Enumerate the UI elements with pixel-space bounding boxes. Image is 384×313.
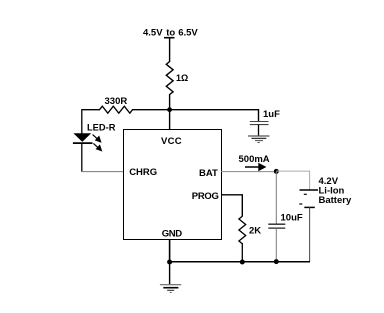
svg-text:Battery: Battery [319,195,352,206]
svg-text:PROG: PROG [192,191,219,202]
wire battery to rail [309,207,311,262]
wire GND pin down [169,239,171,262]
wire BAT to battery [276,171,309,190]
resistor R3 2K [239,216,246,244]
svg-text:4.5Vto6.5V: 4.5Vto6.5V [143,28,198,39]
svg-text:GND: GND [162,229,182,240]
capacitor C2 10uF top plate [268,223,285,225]
battery minus mark 2 [299,203,302,205]
capacitor C1 1uF bottom plate [250,124,269,126]
LED light arrow 1 [93,135,101,142]
resistor R1 1ohm [166,62,173,95]
wire VCC rail to C1 [170,110,259,121]
svg-text:330R: 330R [105,96,128,107]
capacitor C2 10uF bottom plate [268,227,285,229]
ground symbol bottom [160,285,181,293]
junction node R3 rail [240,260,245,265]
svg-text:1uF: 1uF [263,109,280,120]
IC U1 box [124,130,222,240]
terminal VIN [164,37,175,39]
wire VCC rail left segment [82,109,100,111]
LED light arrow 2 [93,143,101,150]
wire VIN to R1 [169,38,171,62]
wire C2 to rail [275,228,277,262]
LED D1 triangle [73,133,91,142]
battery BT1 top plate [300,189,319,191]
svg-text:VCC: VCC [161,136,182,147]
svg-text:2K: 2K [249,225,261,236]
svg-text:LED-R: LED-R [87,123,116,133]
wire LED branch top [81,109,83,133]
wire R3 to rail [241,243,243,262]
wire BAT node to C2 [275,171,277,223]
junction node C2 rail [274,259,279,264]
ground under C1 [248,136,270,143]
wire BAT horizontal [221,171,276,173]
svg-text:CHRG: CHRG [129,167,157,178]
wire C1 to ground [258,125,260,136]
svg-text:500mA: 500mA [239,154,270,165]
battery minus mark 1 [304,193,307,195]
current arrow 500mA [245,164,265,171]
wire VCC rail right of R2 [132,109,170,111]
junction node GND pin [167,260,172,265]
svg-text:1Ω: 1Ω [176,73,188,83]
LED D1 cathode bar [73,142,93,144]
capacitor C1 1uF top plate [250,121,269,123]
resistor R2 330R [100,106,133,113]
svg-text:BAT: BAT [199,168,218,179]
wire PROG to R3 [221,195,242,217]
wire LED to CHRG corner [81,143,83,172]
junction node BAT [274,169,279,174]
wire R1 to VCC node [169,94,171,130]
wire rail to ground symbol [169,262,171,284]
wire CHRG horizontal [81,171,123,173]
junction node VCC rail [167,107,172,112]
ground rail bottom [170,261,310,263]
battery BT1 bottom plate [304,206,315,208]
svg-text:10uF: 10uF [281,212,303,223]
